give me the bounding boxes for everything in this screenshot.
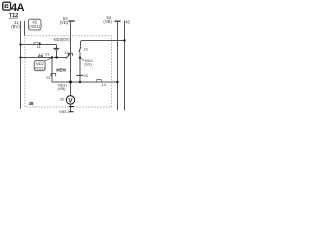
wire 11 horizontal xyxy=(21,44,57,46)
connector bars xyxy=(53,47,59,49)
wire 11 corner down xyxy=(56,45,58,49)
terminal cap 23 xyxy=(77,74,84,76)
svg-text:(VB): (VB) xyxy=(58,86,67,91)
svg-text:(VB): (VB) xyxy=(103,19,112,24)
connector tab on wire 11 xyxy=(34,43,40,44)
junction dot bus A xyxy=(116,81,118,83)
connector tab 21 lower xyxy=(51,74,56,77)
wire from ND2 junction down xyxy=(51,58,53,83)
svg-text:(VD1): (VD1) xyxy=(34,65,45,70)
connector tab on wire 14 xyxy=(97,79,102,81)
svg-text:ND3(0V): ND3(0V) xyxy=(54,37,71,42)
connector tab 13 on center wire xyxy=(68,53,72,56)
svg-text:20: 20 xyxy=(60,96,65,101)
svg-text:MEM: MEM xyxy=(56,68,66,73)
node box ND2 (VD1) xyxy=(34,61,45,71)
wire from 53 down (center wire) xyxy=(70,21,72,96)
bus A wire from 54 down xyxy=(117,21,119,110)
terminal T bar 54 xyxy=(114,20,120,22)
svg-text:(Vs): (Vs) xyxy=(84,62,92,67)
wire cap to 14 xyxy=(79,75,81,82)
junction dot ND1 xyxy=(69,81,72,84)
svg-text:21: 21 xyxy=(46,75,50,80)
terminal bar bottom MEL xyxy=(69,111,73,113)
switch 15 lower wire xyxy=(79,52,81,75)
svg-text:14: 14 xyxy=(101,82,106,87)
wire 42 stub xyxy=(24,21,26,36)
switch 15 upper wire xyxy=(81,41,125,46)
ND4 test dot xyxy=(79,57,81,59)
switch MEM contact arm xyxy=(66,54,70,59)
svg-text:12: 12 xyxy=(39,52,43,57)
svg-text:T12: T12 xyxy=(9,13,19,19)
svg-text:45: 45 xyxy=(125,19,130,24)
wire voltmeter to ground xyxy=(70,104,72,112)
svg-text:V: V xyxy=(68,97,73,104)
terminal bar top MEL xyxy=(69,106,74,108)
svg-text:(BV): (BV) xyxy=(11,24,20,29)
fuse icon 4A xyxy=(3,2,11,10)
junction dot on wire 41 xyxy=(19,43,21,45)
svg-text:MEL1: MEL1 xyxy=(59,109,70,114)
svg-text:38: 38 xyxy=(29,101,34,106)
junction dot wire 11 xyxy=(39,43,41,45)
ND2 leader line xyxy=(45,58,52,61)
junction dot wire14 x80 xyxy=(79,81,81,83)
junction dot bus B xyxy=(123,39,125,41)
svg-text:15: 15 xyxy=(83,47,87,52)
voltmeter circle xyxy=(66,96,74,105)
connector tab on wire 21 xyxy=(38,56,42,57)
bus B wire 45 xyxy=(124,21,126,111)
svg-text:23: 23 xyxy=(84,73,88,78)
terminal T bar 53 xyxy=(69,20,75,22)
junction dot on wire 41 lower xyxy=(19,56,21,58)
junction dot from wire 11 path xyxy=(55,56,57,58)
switch 15 arm xyxy=(79,46,81,52)
wire below connector xyxy=(56,50,58,57)
ND4 leader xyxy=(80,58,84,61)
node box 42 (VD1) xyxy=(28,19,41,30)
svg-text:(VD1): (VD1) xyxy=(29,24,40,29)
wire 14 horizontal xyxy=(52,81,118,83)
svg-text:21: 21 xyxy=(45,52,49,57)
junction dot ND2 tap xyxy=(51,56,53,58)
svg-text:(VD): (VD) xyxy=(60,20,69,25)
dashed ECU box xyxy=(25,36,112,107)
wire 41 vertical xyxy=(20,21,22,109)
svg-text:13: 13 xyxy=(64,50,68,55)
wire 21 horizontal xyxy=(21,57,67,59)
